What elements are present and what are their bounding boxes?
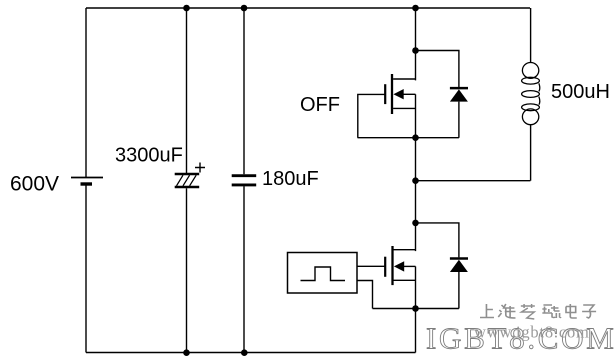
wire 180uF branch lower — [243, 186, 245, 352]
watermark Chinese 上海菱端电子 — [480, 304, 596, 319]
diode D2 — [450, 259, 468, 273]
wire top rail — [86, 7, 530, 9]
端 — [542, 305, 560, 318]
wire gate drive Q2 — [357, 265, 385, 267]
svg-text:180uF: 180uF — [262, 168, 319, 190]
svg-text:OFF: OFF — [300, 94, 340, 116]
wire mid branch — [415, 138, 417, 251]
海 — [498, 304, 515, 318]
wire gate tie Q1 — [358, 94, 385, 137]
svg-text:3300uF: 3300uF — [115, 145, 183, 167]
svg-text:500uH: 500uH — [551, 81, 610, 103]
wire bottom diode branch — [416, 223, 459, 309]
wire left branch lower — [85, 186, 87, 353]
wire inductor top — [530, 8, 532, 63]
node junction dots — [183, 5, 419, 356]
子 — [582, 305, 596, 318]
wire 180uF branch upper — [243, 8, 245, 174]
上 — [480, 304, 494, 318]
svg-text:www.igbt8.com: www.igbt8.com — [474, 323, 590, 342]
wire bottom stub — [415, 309, 417, 353]
wire Q2 source node — [373, 308, 459, 310]
wire top diode branch — [416, 51, 459, 138]
菱 — [521, 304, 535, 319]
wire 3300uF branch upper — [186, 8, 188, 174]
transistor Q1 MOSFET (top, OFF) — [385, 74, 415, 138]
电 — [566, 304, 577, 318]
wire bottom rail — [86, 352, 416, 354]
wire left branch upper — [85, 8, 87, 177]
inductor L1 500uH — [522, 63, 540, 125]
transistor Q2 MOSFET (bottom) — [385, 246, 415, 309]
pulse generator box — [288, 253, 358, 294]
svg-text:600V: 600V — [10, 173, 59, 196]
wire 3300uF branch lower — [186, 188, 188, 352]
capacitor C2 180uF — [232, 176, 257, 185]
wire pulse return — [357, 281, 373, 309]
diode D1 — [450, 88, 468, 102]
wire main branch top — [415, 8, 417, 80]
wire inductor bottom horizontal — [416, 180, 531, 182]
battery V1 600V — [71, 178, 103, 185]
wire inductor bottom — [530, 125, 532, 181]
capacitor C1 3300uF electrolytic — [175, 163, 205, 188]
wire Q1 source node — [358, 137, 459, 139]
